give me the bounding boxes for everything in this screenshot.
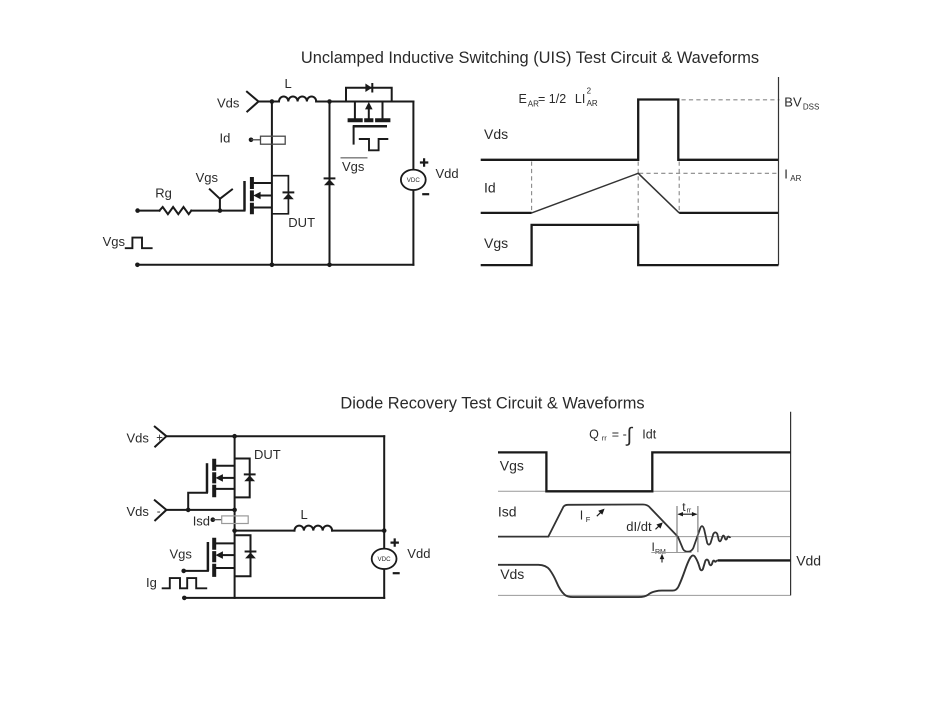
clamp MOSFET (top, with series diode) — [346, 88, 392, 151]
substrate arrowhead upper — [216, 474, 223, 482]
trr dimension arrows — [679, 513, 697, 515]
axis right vertical (UIS) — [778, 77, 780, 265]
svg-text:I: I — [580, 508, 583, 522]
plus sign top source — [420, 158, 428, 166]
drain stub — [254, 182, 272, 184]
svg-text:Isd: Isd — [498, 504, 517, 520]
node: Vds- junction main — [232, 508, 237, 513]
waveform Id baseline left — [481, 212, 532, 214]
baseline Vds (thin) — [498, 594, 791, 596]
body diode loop — [235, 535, 251, 576]
source VDC (bottom) — [372, 549, 397, 569]
wire top rail left — [259, 101, 280, 103]
svg-text:Vds: Vds — [500, 566, 524, 582]
wire group: UIS circuit — [137, 92, 413, 265]
node: input terminal dot — [135, 208, 140, 213]
inverted pulse icon — [359, 139, 389, 150]
svg-text:Q: Q — [589, 427, 599, 441]
svg-text:Rg: Rg — [155, 186, 172, 201]
source VDC (top) — [401, 170, 426, 190]
source stub — [216, 488, 235, 490]
wire bottom rail (bottom ckt) — [184, 597, 384, 599]
trr tick left — [676, 506, 678, 552]
svg-text:AR: AR — [790, 174, 801, 183]
wire Rg input — [138, 210, 160, 212]
current sense box Isd — [213, 516, 248, 524]
freewheel diode D1 — [324, 177, 336, 179]
wire L lead — [235, 530, 295, 532]
svg-text:Vds: Vds — [484, 126, 508, 142]
resistor Rg — [160, 207, 192, 214]
waveform Id baseline right — [679, 212, 778, 214]
svg-text:DUT: DUT — [288, 215, 315, 230]
wire Isd sense stub — [213, 519, 222, 521]
sense resistor box Isd — [222, 516, 249, 524]
source stub right — [382, 102, 384, 119]
channel segments — [212, 538, 216, 577]
node: top rail / DUT drain — [270, 99, 275, 104]
svg-text:rr: rr — [602, 434, 607, 443]
svg-text:Vds: Vds — [217, 95, 240, 110]
wire group: recovery circuit — [155, 427, 384, 598]
dashed vertical t3 — [678, 162, 680, 214]
svg-text:Vdd: Vdd — [436, 166, 459, 181]
drain stub — [216, 542, 235, 544]
waveform Vds (UIS) — [481, 100, 779, 160]
svg-text:Id: Id — [220, 131, 231, 146]
trr tick right — [697, 506, 699, 552]
wire right vertical upper — [412, 102, 414, 170]
wire gate tie upper fet — [188, 493, 207, 510]
node: Vds- junction gate-tie — [186, 508, 191, 513]
wire right vertical upper (bottom ckt) — [383, 436, 385, 548]
wire L to right rail — [332, 530, 384, 532]
channel segments — [250, 177, 254, 214]
gate lead down — [353, 126, 355, 144]
svg-text:Vds: Vds — [127, 504, 150, 519]
transistor upper DUT (bottom circuit) — [207, 459, 250, 498]
axis right vertical (recovery) — [790, 412, 792, 596]
node: L junction — [232, 528, 237, 533]
svg-text:I: I — [784, 166, 788, 181]
channel segments — [212, 459, 216, 497]
baseline Vgs (thin) — [498, 490, 791, 492]
svg-text:Idt: Idt — [642, 427, 656, 441]
node: bottom rail left terminal — [135, 263, 140, 268]
svg-text:BV: BV — [784, 95, 802, 110]
node: Vgs probe junction — [218, 208, 223, 213]
svg-text:Vgs: Vgs — [170, 547, 193, 562]
svg-text:Ig: Ig — [146, 575, 157, 590]
substrate arrow line — [222, 477, 235, 479]
probe Vds+ — [155, 427, 167, 447]
svg-text:VDC: VDC — [378, 556, 392, 563]
svg-text:E: E — [519, 92, 527, 106]
svg-text:dI/dt: dI/dt — [626, 519, 652, 534]
waveform Isd — [498, 505, 731, 552]
svg-text:Vgs: Vgs — [342, 159, 365, 174]
wire Vds- lead — [166, 509, 234, 511]
dashed level IAR — [639, 172, 780, 174]
svg-text:Isd: Isd — [193, 513, 210, 528]
body diode loop DUT — [272, 176, 289, 214]
substrate arrowhead lower — [216, 551, 223, 559]
svg-text:= -: = - — [612, 427, 627, 441]
svg-text:Vgs: Vgs — [484, 235, 508, 251]
minus sign bottom source — [393, 572, 400, 574]
node: top rail / diode branch — [327, 99, 332, 104]
gate bar — [206, 463, 209, 493]
svg-text:Vdd: Vdd — [407, 546, 430, 561]
svg-text:AR: AR — [587, 99, 598, 108]
probe Vgs (gate) — [210, 189, 232, 210]
drain stub — [216, 465, 235, 467]
minus sign top source — [422, 193, 429, 195]
svg-text:Vgs: Vgs — [103, 234, 126, 249]
source stub — [216, 567, 235, 569]
body diode loop — [235, 459, 250, 498]
inductor L2 — [295, 526, 333, 531]
gate bar — [243, 181, 246, 211]
svg-text:2: 2 — [587, 86, 592, 95]
waveform Vgs (UIS) — [481, 225, 779, 265]
wire top rail right — [316, 101, 413, 103]
gate electrode — [353, 125, 387, 128]
substrate arrow line — [260, 195, 272, 197]
substrate arrowhead clamp — [365, 102, 373, 109]
wire gate lead — [191, 210, 244, 212]
node: Isd sense dot — [211, 517, 216, 522]
node: right rail L junction — [382, 528, 387, 533]
wire right vertical lower (bottom ckt) — [383, 569, 385, 598]
substrate arrowhead — [253, 192, 260, 200]
waveform Vgs (recovery) — [498, 452, 791, 491]
wire top rail (bottom ckt) — [166, 435, 384, 437]
transistor DUT (top circuit MOSFET) — [245, 177, 272, 214]
wire lower gate lead — [184, 570, 208, 572]
svg-text:Vds: Vds — [127, 430, 150, 445]
svg-text:Vdd: Vdd — [796, 553, 821, 569]
waveform Vds (recovery) — [498, 555, 718, 597]
substrate arrow line — [222, 554, 235, 556]
svg-text:rr: rr — [687, 507, 692, 514]
wire Id sense stub — [251, 139, 261, 141]
svg-text:DSS: DSS — [803, 103, 819, 112]
wire DUT drain vertical — [271, 102, 273, 265]
wire right vertical lower — [412, 191, 414, 265]
node: Id sense dot — [249, 138, 254, 143]
plus sign bottom source — [391, 538, 399, 546]
svg-text:DUT: DUT — [254, 447, 281, 462]
svg-text:LI: LI — [575, 92, 585, 106]
svg-text:= 1/2: = 1/2 — [538, 92, 566, 106]
channel segments (horizontal) — [348, 118, 391, 122]
Ig double pulse icon — [162, 578, 208, 588]
svg-text:Id: Id — [484, 180, 496, 196]
Vgs pulse source icon (bottom left) — [125, 238, 153, 249]
svg-text:Diode Recovery Test Circuit &: Diode Recovery Test Circuit & Waveforms — [340, 394, 644, 412]
drain stub left — [354, 102, 356, 119]
body diode symbol DUT — [283, 191, 295, 193]
source stub — [254, 207, 272, 209]
current sense box Id — [251, 136, 285, 144]
node: bottom rail terminal — [182, 596, 187, 601]
node: top rail junction — [232, 434, 237, 439]
node: bottom rail / diode branch — [327, 263, 332, 268]
series diode symbol (points right) — [365, 84, 372, 93]
baseline Isd (thin) — [498, 536, 791, 538]
node: bottom rail / DUT source — [270, 263, 275, 268]
probe Vds (top) — [247, 92, 259, 112]
svg-text:L: L — [285, 76, 292, 91]
svg-text:-: - — [157, 506, 161, 518]
svg-text:Unclamped Inductive Switching: Unclamped Inductive Switching (UIS) Test… — [301, 49, 759, 67]
gate bar — [207, 542, 210, 571]
waveform Id ramp — [532, 173, 680, 213]
node: lower gate terminal — [181, 569, 186, 574]
dashed vertical t1 — [531, 162, 533, 214]
transistor lower MOSFET (bottom circuit) — [208, 535, 251, 577]
svg-text:Vgs: Vgs — [500, 457, 524, 473]
body diode symbol lower — [245, 551, 257, 553]
svg-text:F: F — [586, 515, 591, 524]
diode loop over clamp fet — [346, 88, 392, 102]
dashed vertical t2 — [637, 162, 639, 265]
probe Vds- — [155, 500, 167, 520]
sense resistor box Id — [261, 136, 286, 144]
dashed level BVdss — [682, 99, 780, 101]
inductor L1 — [279, 97, 316, 102]
wire bottom rail — [137, 264, 413, 266]
wire freewheel diode branch — [329, 102, 331, 265]
wire main vertical (bottom ckt) — [234, 436, 236, 598]
body diode symbol upper — [244, 473, 256, 475]
svg-text:L: L — [301, 507, 308, 522]
svg-text:VDC: VDC — [407, 177, 421, 184]
waveform Vdd settle thick — [718, 559, 791, 561]
svg-text:+: + — [156, 433, 163, 445]
svg-text:Vgs: Vgs — [196, 170, 219, 185]
substrate arrow line — [368, 109, 370, 119]
